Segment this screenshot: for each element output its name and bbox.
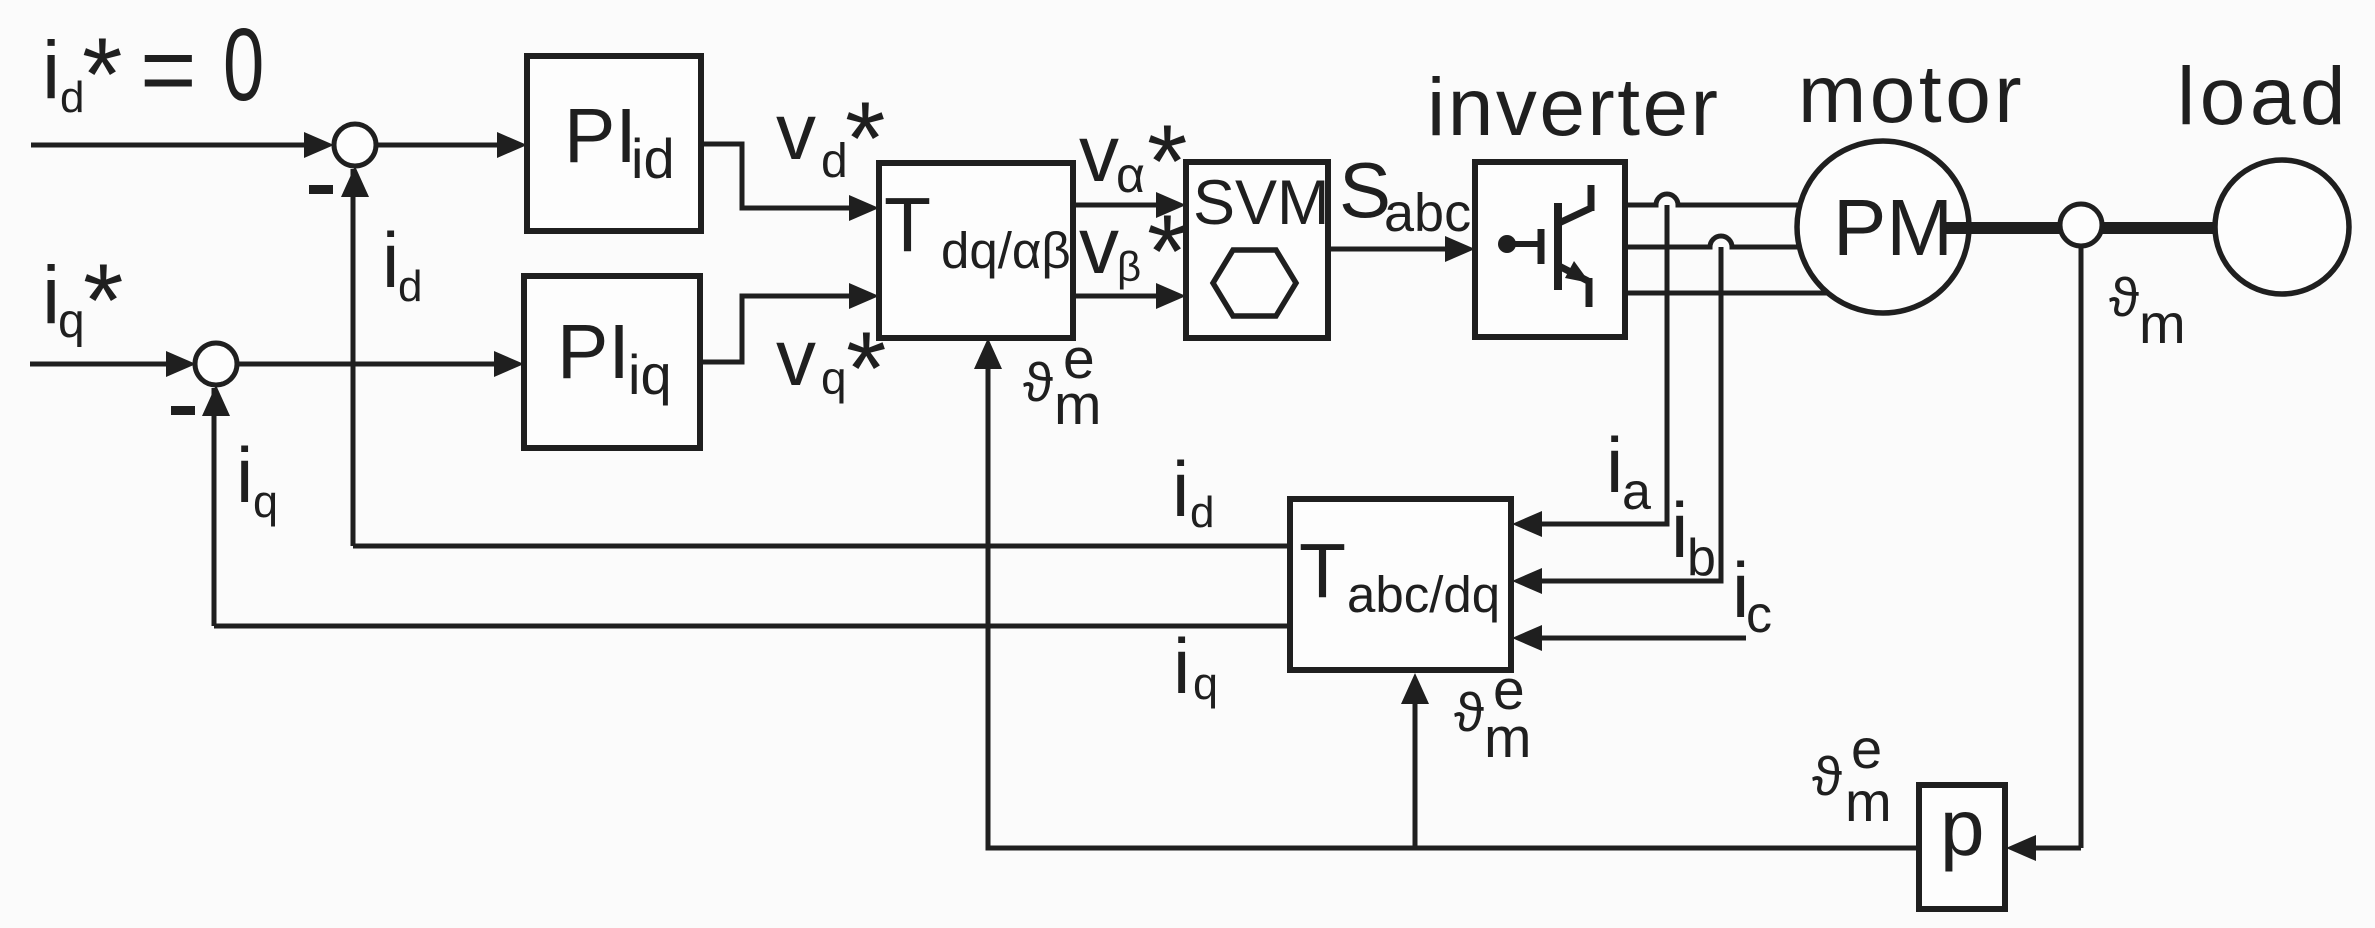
svg-text:d: d [60, 73, 84, 122]
load circle [2215, 160, 2349, 294]
label ic [1732, 546, 1772, 644]
arrowhead into junction 1 [304, 132, 334, 158]
transistor Q1 IGBT symbol inside inverter [1498, 185, 1591, 307]
label id* = 0 [42, 8, 264, 133]
svg-text:ϑ: ϑ [2109, 266, 2139, 328]
svg-text:p: p [1940, 783, 1985, 872]
svg-text:q: q [253, 476, 278, 527]
svg-text:T: T [1299, 528, 1346, 614]
svg-text:ϑ: ϑ [1454, 681, 1484, 743]
label ib [1671, 486, 1716, 587]
arrowhead theta e up into Tabc bottom [1401, 673, 1429, 704]
svg-text:SVM: SVM [1193, 168, 1330, 238]
Q1 collector stub [1588, 185, 1595, 211]
wire theta m into p box [2020, 846, 2081, 851]
wire Sabc SVM to inverter [1328, 247, 1447, 252]
label theta m e at Tdq [1023, 327, 1101, 437]
Q1 gate lead [1513, 241, 1538, 247]
Q1 emitter stub [1586, 278, 1593, 307]
Q1 gate bar [1538, 229, 1545, 264]
arrowhead vd* into Tdq [849, 195, 879, 221]
svg-text:T: T [884, 182, 931, 268]
wire id feedback from Tabc left [353, 544, 1290, 549]
wire valpha* Tdq to SVM [1073, 203, 1158, 208]
svg-text:dq/αβ: dq/αβ [941, 222, 1071, 279]
svg-text:ϑ: ϑ [1023, 351, 1053, 413]
label valpha* [1079, 104, 1187, 220]
block p pole pairs [1919, 785, 2005, 909]
arrowhead theta e up into Tdq bottom [974, 338, 1002, 369]
wire iq* input to summing junction 2 [30, 362, 168, 367]
block Tdq/ab [879, 163, 1073, 338]
arrowhead into PIid [497, 132, 527, 158]
wire ic line into Tabc [1526, 636, 1746, 641]
arrowhead Sabc into inverter [1445, 236, 1475, 262]
svg-text:β: β [1117, 243, 1141, 290]
label theta m e at p box [1812, 717, 1892, 833]
wire id feedback vertical into junction 1 [351, 169, 356, 546]
wire ia sense line down to Tabc [1526, 205, 1667, 524]
svg-text:c: c [1746, 586, 1772, 644]
Q1 body bar [1554, 203, 1562, 290]
label ia [1606, 421, 1651, 521]
arrowhead into PIiq [494, 351, 524, 377]
arrowhead ib into Tabc [1512, 568, 1542, 594]
svg-text:i: i [1173, 622, 1190, 710]
svg-text:d: d [398, 262, 422, 311]
block PIiq [524, 276, 700, 448]
wire junction1 to PIid [376, 143, 498, 148]
arrowhead ia into Tabc [1512, 511, 1542, 537]
arrowhead theta m into p box [2006, 835, 2036, 861]
svg-text:inverter: inverter [1427, 62, 1720, 153]
svg-text:i: i [1671, 486, 1688, 574]
Q1 gate terminal dot [1498, 235, 1516, 253]
svg-text:v: v [1079, 201, 1119, 290]
label iq at junction 2 [236, 431, 278, 527]
block SVM [1186, 162, 1328, 338]
wire vbeta* Tdq to SVM [1073, 294, 1158, 299]
minus sign at junction 2 [171, 406, 195, 415]
svg-text:*: * [846, 311, 886, 427]
svg-text:PI: PI [557, 309, 630, 395]
wire PIid output vd* to Tdq [701, 144, 851, 208]
svg-text:*: * [845, 81, 885, 197]
wire junction2 to PIiq [237, 362, 496, 367]
arrowhead ic into Tabc [1512, 625, 1542, 651]
label Sabc [1339, 146, 1471, 243]
wire theta m from shaft sensor down [2079, 246, 2084, 848]
shaft sensor to load [2098, 222, 2218, 234]
label iq* [42, 243, 123, 359]
svg-text:a: a [1622, 463, 1651, 521]
svg-text:iq: iq [628, 343, 672, 406]
arrowhead into junction 2 [166, 351, 196, 377]
svg-text:i: i [1606, 421, 1623, 509]
wire theta e from p box to Tdq and Tabc [988, 352, 1919, 848]
minus sign at junction 1 [309, 185, 333, 194]
label id feedback [1172, 445, 1214, 537]
svg-text:m: m [1484, 706, 1531, 770]
svg-text:abc: abc [1384, 183, 1471, 243]
svg-text:*: * [83, 243, 123, 359]
svg-text:load: load [2177, 51, 2350, 142]
arrowhead iq into junction 2 bottom [202, 385, 230, 416]
svg-text:q: q [58, 295, 85, 348]
block inverter [1475, 162, 1625, 337]
motor circle PM [1797, 141, 1969, 313]
wire iq feedback vertical into junction 2 [212, 388, 217, 626]
svg-text:abc/dq: abc/dq [1347, 566, 1500, 623]
svg-text:v: v [776, 313, 816, 402]
arrowhead vq* into Tdq [849, 283, 879, 309]
Q1 emitter diagonal [1559, 266, 1588, 281]
label theta m e at Tabc [1454, 658, 1531, 770]
svg-text:i: i [236, 431, 253, 519]
svg-text:v: v [776, 87, 816, 176]
summing junction 1 [334, 124, 376, 166]
wire inverter phase c to motor [1625, 291, 1832, 296]
wire id* input to summing junction 1 [31, 143, 305, 148]
svg-text:i: i [42, 25, 60, 116]
svg-text:d: d [1190, 488, 1214, 537]
svg-text:motor: motor [1798, 49, 2025, 140]
arrowhead valpha* into SVM [1156, 192, 1186, 218]
svg-text:i: i [1172, 445, 1189, 533]
arrowhead vbeta* into SVM [1156, 283, 1186, 309]
Q1 collector diagonal [1559, 208, 1591, 223]
hexagon inside SVM [1213, 250, 1296, 316]
svg-text:α: α [1116, 147, 1145, 203]
shaft sensor node circle [2060, 204, 2102, 246]
svg-text:id: id [631, 127, 675, 190]
svg-text:PI: PI [564, 93, 637, 179]
svg-text:v: v [1079, 109, 1119, 198]
block PIid [527, 56, 701, 231]
svg-text:b: b [1687, 529, 1716, 587]
svg-text:=: = [140, 15, 197, 124]
svg-text:m: m [1845, 770, 1892, 833]
svg-text:i: i [382, 216, 399, 304]
svg-text:PM: PM [1833, 183, 1953, 272]
label iq feedback [1173, 622, 1218, 710]
svg-text:q: q [821, 352, 847, 404]
wire theta e branch up into Tabc [1413, 687, 1418, 848]
wire iq feedback from Tabc left [214, 624, 1290, 629]
svg-text:q: q [1193, 658, 1218, 709]
label vq* [776, 311, 886, 427]
svg-text:m: m [1054, 373, 1101, 437]
wire PIiq output vq* to Tdq [700, 296, 851, 362]
block Tabc/dq [1290, 499, 1511, 670]
wire inverter phase b to motor with sensor bump [1625, 236, 1830, 247]
svg-text:ϑ: ϑ [1812, 745, 1842, 807]
wire ib sense line down to Tabc [1526, 247, 1721, 581]
svg-text:d: d [821, 135, 848, 188]
arrowhead id into junction 1 bottom [341, 166, 369, 197]
label vbeta* [1079, 194, 1187, 310]
label theta m at shaft [2109, 266, 2186, 355]
label vd* [776, 81, 885, 197]
shaft motor to sensor [1943, 222, 2064, 234]
svg-text:*: * [82, 17, 122, 133]
svg-text:*: * [1147, 194, 1187, 310]
wire inverter phase a to motor with sensor bump [1625, 194, 1830, 205]
Q1 emitter arrowhead [1565, 261, 1590, 283]
summing junction 2 [195, 343, 237, 385]
svg-text:0: 0 [223, 8, 264, 123]
svg-text:m: m [2139, 292, 2186, 355]
label id at junction 1 [382, 216, 422, 311]
